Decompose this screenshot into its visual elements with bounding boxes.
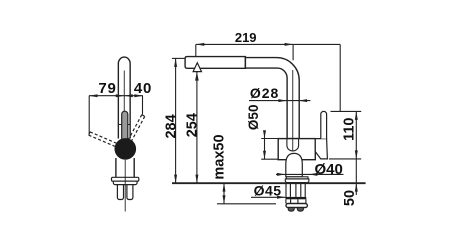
diameter40 left arrow [277,173,286,176]
witness line left (lever tip) [88,96,90,135]
side view center line upper [123,71,125,114]
svg-text:40: 40 [134,80,152,97]
aerator outlet triangle [193,63,201,72]
svg-text:254: 254 [185,113,201,137]
dimension 110/50 line [355,111,357,195]
svg-text:219: 219 [235,30,257,45]
escutcheon flange upper [286,177,308,179]
handle rod front view [321,111,327,138]
washer bar [286,204,307,208]
side view body below ball [116,158,134,177]
dimension 284 line [175,58,177,183]
side view spout tube [118,57,130,138]
pipe center line [292,70,294,151]
dimension 110 top witness [331,110,362,112]
side view tube joint line [118,124,130,126]
dashed lever position right-up [129,115,145,141]
dimension 110 top arrow [355,111,358,120]
diameter50 bottom arrow [263,151,266,160]
svg-text:Ø40: Ø40 [315,161,343,178]
dimension 254 top arrow [195,72,199,81]
hose end left [288,208,294,212]
dimension 219 line [196,43,340,45]
diameter50 line [264,132,266,160]
svg-text:284: 284 [163,114,179,138]
dimension 110 bottom arrow [355,150,358,159]
side view center line lower [124,160,126,212]
handle ball [115,138,137,160]
side view left supply pipe [117,185,123,200]
diameter50 bottom witness [261,158,278,160]
svg-text:Ø28: Ø28 [250,85,279,101]
front view spray head section [185,57,245,69]
diameter40 right arrow [309,173,318,176]
dimension 79 right arrow [116,94,125,97]
dashed lever position left-down [89,132,117,146]
max50 bottom arrow [223,195,226,204]
dimension 219 left arrow [196,43,205,46]
svg-text:max50: max50 [211,134,227,179]
svg-text:Ø50: Ø50 [246,105,261,131]
dimension diameter40 line [276,173,344,175]
dimension 284 top witness [172,57,185,59]
mounting nut dark band [286,197,307,199]
dimension 284 bottom arrow [174,175,177,184]
front view body [278,139,315,160]
diameter45 arrow [277,196,286,199]
handle base block [315,139,327,159]
diameter50 top witness [261,138,278,140]
shank boss [286,153,303,176]
diameter28 right arrow [299,99,308,102]
dimension diameter28 line [249,100,310,102]
svg-text:50: 50 [342,190,358,206]
dimension 254 bottom arrow [195,175,198,184]
countertop line [172,182,366,184]
elbow line to handle witness [339,44,341,111]
dimension 254 line [196,72,198,183]
pipe socket inside body [287,139,299,151]
dimension 284 top arrow [174,58,177,67]
dimension max50 line [223,183,225,204]
threaded shank verticals [286,184,305,197]
nut body verticals [286,199,306,203]
dimension 40 left arrow [124,94,133,97]
front view spout tube and bend [245,58,299,139]
side view right supply pipe [127,185,133,200]
side view base flange upper [112,177,139,181]
max50 top arrow [223,183,226,192]
witness 219 right [292,44,294,60]
hose end right [297,208,303,212]
dimension diameter45 line [251,196,286,198]
witness 219 left [195,44,197,56]
diameter50 top arrow [263,130,266,138]
dimension 50 top arrow [355,183,358,192]
side view base flange lower [113,181,137,184]
dimension 219 right arrow [285,43,294,46]
dimension 79 left arrow [89,94,98,97]
diameter28 left arrow [278,99,287,102]
dimension 110 bottom witness [329,158,361,160]
max50 bottom reference line [217,203,276,205]
svg-text:110: 110 [341,117,357,140]
solid lever rod up position [122,111,128,139]
escutcheon flange lower [285,179,309,183]
svg-text:Ø45: Ø45 [254,182,282,198]
witness line right (lever tip) [142,96,144,115]
dimension 40 right arrow [134,94,143,97]
dimension 79/40 line [89,95,143,97]
svg-text:79: 79 [98,80,116,97]
